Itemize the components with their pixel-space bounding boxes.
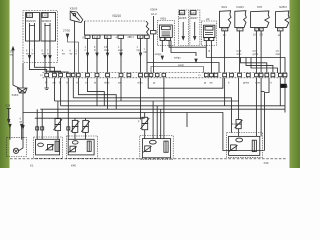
unit B2 body [68, 139, 94, 155]
svg-text:K1: K1 [30, 163, 34, 167]
wire stub 187 [186, 113, 188, 128]
pump motor M [13, 148, 18, 153]
sensor L6/2 [41, 13, 56, 42]
wires into unit C [153, 98, 164, 139]
bus 5 [35, 117, 145, 119]
svg-text:N25/3: N25/3 [279, 5, 287, 9]
ground symbol left [44, 78, 49, 90]
wire drop n2 [260, 78, 262, 137]
unit D dashed box [227, 133, 263, 158]
svg-text:gr: gr [204, 82, 206, 85]
sensor group outer dashed box [23, 11, 58, 63]
wire drop b [54, 78, 56, 101]
unit C valve F [140, 113, 149, 139]
rail name labels [40, 75, 201, 77]
svg-text:sw: sw [62, 54, 65, 56]
svg-text:W29/15: W29/15 [26, 19, 36, 23]
wire drop n [255, 78, 257, 137]
wire staircase L6/1 b [35, 62, 55, 73]
rail pin boxes [45, 73, 287, 76]
wire bus top right [206, 58, 285, 73]
svg-text:br: br [32, 53, 34, 56]
connector X30/3 flag [70, 11, 83, 22]
sensor L6/3 dashed box [179, 10, 189, 46]
valve Y2 [71, 118, 80, 139]
svg-text:sw: sw [8, 122, 11, 124]
pin N10/1 [237, 28, 243, 73]
wire N3/10 pin 8 [86, 38, 88, 72]
pins S76 [255, 28, 263, 73]
label pins S76 [253, 34, 264, 37]
svg-text:L6-3: L6-3 [151, 12, 157, 16]
svg-text:sw: sw [10, 54, 13, 57]
bus 1 [55, 100, 239, 102]
wire N3/10 pin 15 [96, 38, 98, 72]
svg-text:X40: X40 [264, 161, 269, 165]
unit B1 body [36, 139, 60, 155]
wire M16 a [161, 41, 163, 60]
wire A2 b [210, 41, 212, 73]
wire mid horizontal 2 [151, 67, 204, 73]
hydraulic unit B2 dashed box [67, 136, 98, 158]
pin S9/1 [222, 28, 228, 73]
wire drop m2 [224, 78, 226, 106]
wire N3/10 pin 15b [139, 38, 141, 72]
control unit N3/10 [85, 21, 150, 35]
connector N25/3 flag [276, 11, 290, 28]
label V28 [5, 104, 10, 108]
svg-text:br: br [94, 49, 96, 52]
labels pump wires [8, 119, 23, 124]
wire N3/10 pin 25 [106, 38, 108, 72]
wire step 97 [163, 78, 165, 98]
wire L6/1 pair [29, 23, 35, 62]
wire M16 b [169, 41, 206, 58]
svg-text:N3/10: N3/10 [113, 14, 122, 18]
svg-text:sw: sw [42, 54, 45, 56]
ground connector X18/3 trapezoid [18, 88, 28, 93]
svg-text:sw/gn: sw/gn [155, 53, 162, 56]
svg-text:rt/ws: rt/ws [276, 53, 282, 56]
wire step right 1 [241, 58, 267, 73]
wire mid horizontal 1 [145, 35, 219, 72]
svg-text:27/30: 27/30 [63, 29, 70, 33]
wire loop right riser [261, 78, 269, 151]
wire U link [148, 78, 223, 88]
connector S76 flag [251, 11, 270, 28]
unit D valve F1 [235, 78, 243, 137]
wire staircase L6/2 a [44, 56, 61, 73]
svg-text:X30/3: X30/3 [70, 6, 78, 10]
svg-text:rt ws: rt ws [255, 82, 261, 85]
svg-text:V28: V28 [5, 104, 10, 108]
wire drop r [284, 78, 286, 113]
svg-text:W29/16: W29/16 [42, 19, 52, 23]
wire staircase L6/1 a [28, 56, 46, 73]
wire 27/30 with arrow [66, 34, 78, 73]
wire L6/4 [194, 22, 196, 40]
rail labels below [45, 82, 272, 85]
connector rail X26 [43, 73, 288, 78]
connector N10/1 flag [235, 11, 247, 28]
svg-text:L6/3: L6/3 [180, 11, 186, 15]
svg-text:L6/2: L6/2 [43, 14, 49, 18]
svg-text:W29/7: W29/7 [190, 16, 198, 20]
svg-text:br: br [47, 53, 49, 56]
svg-text:br: br [94, 82, 96, 85]
pin boxes under N3/10 [85, 35, 143, 38]
svg-text:sw: sw [70, 54, 73, 56]
svg-text:sw: sw [26, 54, 29, 56]
svg-text:rt/sw: rt/sw [104, 49, 109, 52]
svg-text:rt/sw: rt/sw [104, 82, 109, 85]
svg-text:rt/ws: rt/ws [237, 53, 243, 56]
pump motor wires [9, 124, 23, 140]
pump dashed box [7, 138, 27, 157]
svg-text:sw: sw [210, 82, 213, 85]
wire drop h [107, 78, 109, 109]
svg-text:sw/gr: sw/gr [178, 64, 184, 67]
svg-text:0.75: 0.75 [237, 51, 242, 53]
pin number labels N3/10 [83, 36, 142, 39]
svg-text:A2: A2 [206, 17, 210, 21]
wire step right 3 [251, 58, 278, 73]
wire from X30/3 [74, 21, 76, 72]
wire drop g [96, 78, 98, 106]
connector S9/1 flag [220, 11, 232, 28]
svg-text:sw/gn: sw/gn [174, 57, 181, 60]
wire M16 c [171, 41, 197, 63]
wire drop e [72, 78, 74, 98]
sensor L6/1 [26, 13, 40, 42]
wire X30/4 [151, 16, 157, 73]
wire step right 2 [246, 58, 273, 73]
component M16 dashed box [157, 21, 174, 46]
pin N25/3 [278, 28, 283, 73]
bus 2 [61, 105, 285, 107]
svg-text:L6/4: L6/4 [191, 11, 197, 15]
unit C dashed box [140, 136, 173, 160]
wire into B1 left [36, 109, 39, 139]
wire drop c [60, 78, 62, 106]
svg-text:K40: K40 [71, 163, 76, 167]
svg-text:gr: gr [153, 82, 155, 85]
svg-text:gr/ws: gr/ws [243, 82, 250, 85]
wire into D from busW [231, 132, 233, 134]
svg-text:S9/1: S9/1 [221, 5, 227, 9]
svg-text:X30/4: X30/4 [150, 7, 158, 11]
unit D body [229, 136, 260, 155]
svg-text:1 15: 1 15 [94, 36, 99, 39]
bus 3 [40, 108, 285, 110]
svg-text:M16: M16 [161, 17, 167, 21]
wire drop i [120, 78, 122, 101]
svg-text:W29/5: W29/5 [179, 16, 187, 20]
svg-text:N10/1: N10/1 [236, 5, 244, 9]
valve Y1 [54, 101, 63, 139]
valve Y3 [81, 118, 90, 139]
component M16 body [160, 25, 173, 41]
component A2 dashed box [201, 21, 216, 46]
wire left riser [12, 47, 20, 88]
wire labels row mid [26, 47, 281, 56]
svg-text:rt/gn: rt/gn [137, 49, 142, 52]
svg-text:S76: S76 [257, 5, 262, 9]
label left riser [10, 51, 13, 57]
wire into B1 left2 [41, 109, 44, 139]
probe V28 [6, 109, 11, 123]
wire drop j [140, 78, 142, 120]
wire drop e2 [78, 78, 116, 109]
svg-text:L6/1: L6/1 [27, 14, 33, 18]
wire drop q [279, 78, 281, 106]
component A2 body [204, 25, 215, 40]
svg-text:X18/3: X18/3 [12, 93, 19, 97]
harness separator dashed [10, 158, 287, 160]
svg-text:sw/rt: sw/rt [118, 49, 123, 52]
bus 4 [23, 113, 265, 151]
wire N3/10 pin 4 [120, 38, 122, 72]
ground label W2 [281, 84, 289, 89]
wire drop f [88, 78, 105, 106]
wire staircase L6/2 b [49, 56, 68, 73]
wire L6/3 [182, 22, 184, 40]
wire A2 a [205, 41, 207, 48]
bus W [73, 98, 231, 133]
unit C body [142, 139, 170, 158]
wire L6/2 pair [45, 23, 51, 62]
svg-text:28B 4: 28B 4 [128, 36, 135, 39]
sensor L6/4 dashed box [190, 10, 200, 46]
label X30/4 [150, 7, 158, 16]
wire drop d [67, 78, 70, 140]
wire through X18/3 [19, 63, 25, 151]
hydraulic unit B1 dashed box [34, 137, 63, 158]
svg-text:gr/ws: gr/ws [253, 53, 259, 56]
